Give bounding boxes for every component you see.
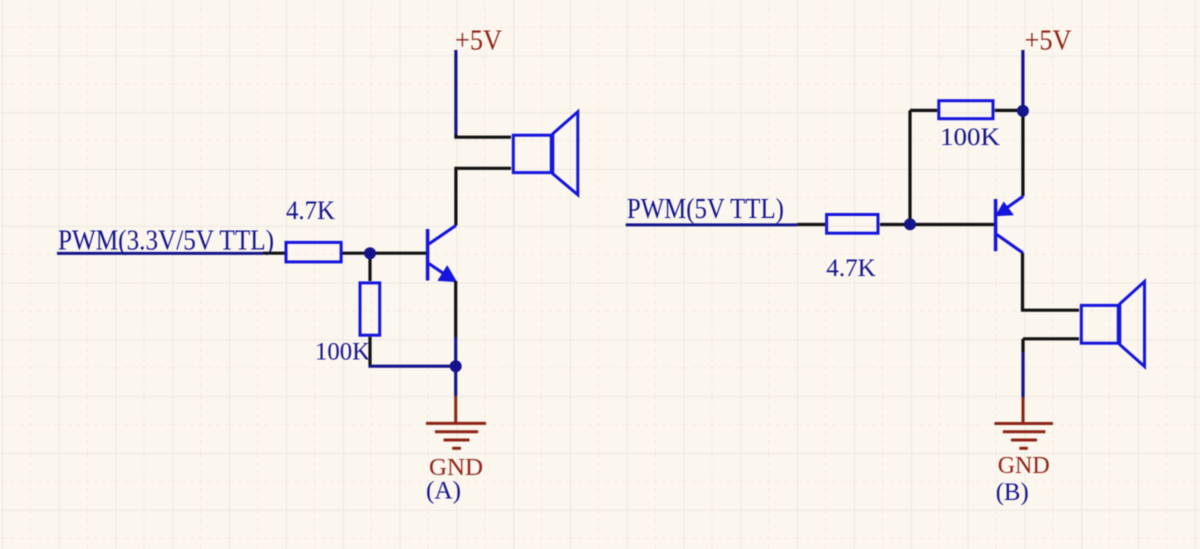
- svg-text:+5V: +5V: [1025, 24, 1072, 56]
- svg-text:(B): (B): [996, 479, 1029, 506]
- svg-text:100K: 100K: [940, 124, 1000, 151]
- svg-text:+5V: +5V: [455, 25, 502, 57]
- svg-text:GND: GND: [998, 453, 1050, 479]
- svg-text:4.7K: 4.7K: [286, 196, 335, 225]
- svg-text:(A): (A): [426, 478, 461, 505]
- svg-text:100K: 100K: [315, 339, 370, 366]
- svg-text:PWM(3.3V/5V TTL): PWM(3.3V/5V TTL): [58, 225, 274, 256]
- svg-text:4.7K: 4.7K: [826, 255, 876, 282]
- svg-text:PWM(5V TTL): PWM(5V TTL): [627, 194, 784, 225]
